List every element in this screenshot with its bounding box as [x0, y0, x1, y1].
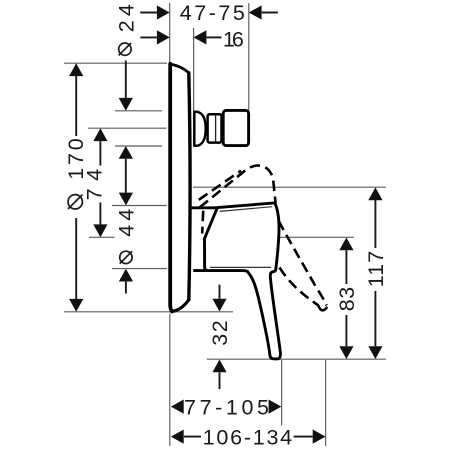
svg-text:16: 16 [223, 27, 244, 51]
plate top edge [170, 64, 188, 73]
extension line B: knob base [193, 28, 195, 111]
dim 74 line [99, 141, 101, 166]
extension line: lever tip level [207, 358, 386, 360]
handle body and lever [205, 203, 281, 359]
extension line: knob bottom (d24) [115, 145, 162, 147]
knob neck dome [194, 112, 205, 146]
handle top chamfer line [220, 207, 273, 212]
arrow d170 bottom [69, 299, 83, 312]
arrow 32 bottom [212, 360, 226, 373]
arrow 47-75 left [157, 5, 170, 19]
extension line: 74 top [88, 127, 167, 129]
extension line: 117 top [193, 186, 386, 188]
svg-text:170: 170 [64, 138, 88, 180]
arrow 77-105 right [269, 400, 282, 414]
extension line A: wall plane top [169, 3, 171, 62]
extension line: plate bottom [64, 311, 233, 313]
extension line: 74 bottom [89, 236, 115, 238]
dim 83 line [345, 250, 347, 284]
diameter symbol (24) [119, 43, 131, 55]
dim 16 line [140, 36, 157, 38]
dashed open lever tip hook [318, 305, 327, 310]
extension line C: knob tip [248, 3, 250, 110]
arrow d24 top [119, 98, 133, 111]
arrow 47-75 right [249, 5, 262, 19]
extension line: solid lever tip [281, 360, 283, 426]
arrow 117 top [368, 187, 382, 200]
extension line: plate top [64, 62, 167, 64]
arrow 106-134 left [171, 430, 184, 444]
arrow 106-134 right [313, 430, 326, 444]
plate bottom edge [172, 300, 189, 312]
dashed open lever inner edge [280, 268, 319, 306]
svg-text:32: 32 [208, 320, 232, 346]
extension line: dashed lever tip [325, 360, 327, 446]
dashed raised lever lower edge [199, 171, 241, 200]
plate left edge (wall side) [170, 64, 172, 312]
arrow 74 top [93, 128, 107, 141]
extension line: d44 bottom [112, 268, 167, 270]
diameter symbol (170) [68, 195, 82, 209]
dim 47-75 line [140, 12, 157, 14]
svg-text:47-75: 47-75 [180, 1, 245, 25]
plate front face [189, 73, 190, 300]
svg-text:83: 83 [335, 287, 359, 312]
dashed raised lever upper edge and tip [200, 166, 276, 208]
dim d170 line [75, 76, 77, 136]
arrow d24 bottom [119, 146, 133, 159]
handle sleeve bottom edge [193, 269, 210, 272]
extension line: d44 top [112, 205, 167, 207]
arrow 83 top [339, 238, 353, 251]
handle bottom chamfer line [210, 266, 271, 268]
arrow d44 top [119, 193, 133, 206]
extension line: 83 top / pivot [272, 236, 354, 238]
arrow d170 top [69, 63, 83, 76]
arrow 83 bottom [339, 346, 353, 359]
dim 32 line [219, 285, 221, 299]
dashed rotated body left edge [202, 211, 203, 234]
extension line: knob top (d24) [115, 110, 162, 112]
arrow 16 left [157, 30, 170, 44]
svg-text:117: 117 [364, 251, 388, 288]
dim 117 line [374, 200, 376, 248]
knob middle ring [208, 114, 222, 142]
dashed open lever outer edge [279, 221, 327, 306]
knob ring inner line [215, 116, 217, 142]
knob end cap [223, 110, 248, 145]
arrow d44 bottom [119, 269, 133, 282]
arrow 74 bottom [93, 224, 107, 237]
extension line: wall plane bottom [169, 314, 171, 447]
arrow 77-105 left [171, 400, 184, 414]
arrow 117 bottom [368, 346, 382, 359]
handle sleeve top edge [191, 206, 218, 209]
arrow 32 top [212, 299, 226, 312]
dim d24 leader [125, 61, 127, 99]
dim d44 tail [125, 282, 127, 294]
dim 106-134 line [184, 436, 201, 438]
arrow 16 right [194, 30, 207, 44]
diameter symbol (44) [120, 251, 132, 263]
